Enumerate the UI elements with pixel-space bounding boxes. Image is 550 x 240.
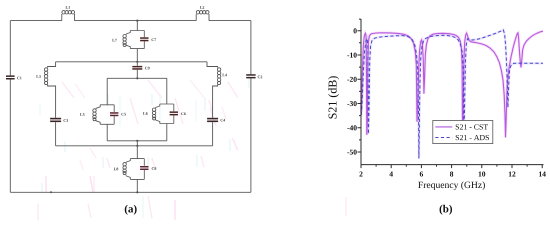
x tick labels: [359, 172, 545, 177]
inductor L8 coil: [123, 163, 126, 175]
label L4: [222, 74, 227, 77]
node: bus junction: [136, 61, 138, 63]
y-axis title: [328, 76, 339, 118]
label C3: [64, 119, 69, 122]
wire: lower bus down to tank L8C8: [136, 146, 138, 159]
capacitor C6: [170, 111, 178, 115]
legend dashed sample: [435, 137, 452, 139]
capacitor C3: [50, 118, 61, 122]
label C5: [121, 113, 126, 116]
inductor L4: [217, 68, 220, 85]
node: inner box top junction: [136, 77, 138, 79]
label L3: [36, 75, 40, 78]
y-axis: [360, 19, 362, 165]
wire: C3 down and corner to lower bus: [55, 122, 57, 146]
label C9: [145, 67, 150, 70]
y major ticks: [358, 31, 362, 152]
outer loop right edge with C2 gap: [250, 21, 252, 193]
S21-ADS dashed curve: [361, 30, 543, 159]
node: bottom edge dot: [50, 191, 52, 193]
label C7: [152, 38, 157, 41]
wire: upper bus: [56, 61, 207, 63]
tank L8/C8 box: [126, 159, 144, 180]
top wire segments around L1 and L2: [10, 20, 251, 22]
wire: right jog to L4: [207, 62, 218, 68]
capacitor C4: [207, 118, 218, 122]
caption (b): [440, 205, 452, 215]
capacitor C2: [246, 74, 255, 78]
outer loop left edge with C1 gap: [9, 21, 11, 193]
tank L5/C5 box: [96, 105, 114, 125]
legend box: [433, 121, 493, 144]
node: bottom junction: [136, 191, 138, 193]
label C1: [17, 77, 21, 80]
watermark streaks: [38, 75, 346, 220]
tank L7/C7 box: [126, 31, 144, 49]
label L5: [80, 113, 84, 116]
wire: L4 bottom jog: [213, 85, 218, 118]
inductor L6 coil: [152, 108, 155, 120]
y tick labels: [347, 28, 356, 154]
wire: link inner box bottom to lower bus: [136, 141, 138, 146]
axes: [358, 19, 544, 168]
legend solid sample: [435, 126, 452, 128]
wire: inner box right edge upper: [166, 78, 168, 104]
node: inner box bottom junction: [136, 140, 138, 142]
label C2: [258, 76, 263, 79]
wire: tank L8C8 to outer bottom: [136, 179, 138, 192]
capacitor C8: [140, 166, 148, 170]
inductor L5 coil: [93, 109, 96, 121]
wire: inner box left edge upper: [106, 78, 108, 105]
inductor L1: [62, 11, 75, 21]
y minor ticks: [359, 19, 361, 140]
wire: top tap down to tank L7C7: [136, 21, 138, 31]
node: top tap junction: [136, 20, 138, 22]
label C4: [221, 119, 226, 122]
wire: inner box left edge lower: [106, 124, 108, 141]
wire: tank L7C7 to bus: [136, 49, 138, 62]
x minor ticks: [376, 165, 527, 167]
wire: L3 bottom jog: [48, 85, 56, 118]
wire: inner box top edge: [107, 77, 167, 79]
label L7: [112, 39, 117, 42]
capacitor C9: [132, 66, 142, 70]
inductor L3: [44, 68, 47, 85]
label L8: [114, 168, 118, 171]
wire: C4 down corner: [212, 122, 214, 146]
x-axis: [361, 164, 544, 166]
label L2: [200, 6, 204, 9]
label L1: [66, 6, 70, 9]
capacitor C7: [140, 37, 148, 41]
label C8: [152, 167, 157, 170]
wire: inner box right edge lower: [166, 124, 168, 141]
inductor L7 coil: [123, 35, 126, 47]
wire: inner box bottom edge: [107, 140, 167, 142]
capacitor C5: [110, 112, 118, 116]
label L6: [143, 112, 147, 115]
curve glow: [361, 31, 543, 137]
node: lower bus junction: [136, 145, 138, 147]
S21-CST solid curve: [361, 31, 543, 137]
x major ticks: [361, 165, 542, 169]
caption (a): [125, 205, 137, 215]
capacitor C1: [6, 75, 15, 79]
outer loop bottom wire: [10, 191, 251, 193]
tank L6/C6 box: [156, 104, 174, 124]
wire: C9 stems: [136, 62, 138, 79]
wire: lower bus: [56, 145, 213, 147]
x-axis title: [418, 181, 485, 190]
inductor L2: [196, 11, 209, 21]
wire: left jog to L3: [48, 62, 56, 68]
label C6: [181, 112, 186, 115]
